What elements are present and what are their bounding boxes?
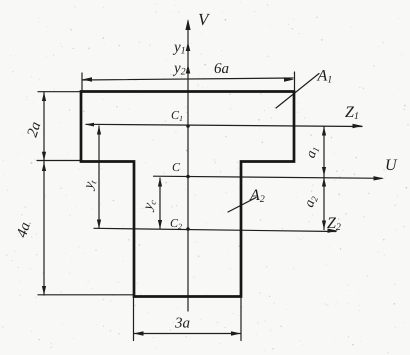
arrow 6a right	[284, 77, 294, 81]
T-shape outline	[81, 92, 294, 297]
extension line below stem right corner	[240, 298, 242, 341]
arrow yc up	[158, 178, 162, 187]
axis Z2 line through C2	[94, 228, 336, 231]
arrow at left end of C1 line	[85, 123, 94, 127]
dimension line 2a 4a vertical left	[43, 92, 45, 295]
arrow V axis top	[185, 19, 190, 30]
svg-text:U: U	[385, 157, 398, 174]
arrow a2 down	[322, 221, 326, 230]
node C1 dot	[186, 124, 190, 128]
svg-text:3a: 3a	[174, 316, 190, 332]
arrow left dim bottom down	[42, 286, 46, 295]
node C dot	[186, 175, 190, 179]
axis Z1 line through C1	[86, 124, 362, 126]
svg-text:C: C	[172, 160, 181, 174]
arrow left dim mid down	[42, 152, 46, 161]
extension line above right flange corner	[294, 72, 296, 90]
svg-text:6a: 6a	[214, 61, 229, 77]
extension line left at flange top	[38, 91, 80, 93]
arrow 6a left	[82, 77, 92, 81]
dimension line yc vertical	[159, 178, 161, 229]
axis U line through C	[154, 176, 383, 178]
extension line left at stem bottom	[38, 294, 133, 296]
arrow yt up	[97, 126, 101, 135]
arrow y1 on axis	[186, 42, 191, 51]
arrow 3a left	[134, 331, 144, 335]
dimension line a1 a2 vertical	[323, 127, 325, 230]
leader line A2	[228, 198, 256, 213]
arrow 3a right	[231, 331, 241, 335]
dimension line 6a	[83, 78, 293, 80]
arrow Z2 tip	[328, 229, 339, 233]
dimension line 3a	[134, 333, 241, 335]
arrow U tip	[374, 176, 385, 180]
extension line below stem left corner	[133, 298, 135, 341]
axis V vertical centerline	[187, 21, 189, 311]
node C2 dot	[186, 227, 190, 231]
arrow a2 up	[322, 178, 326, 187]
arrow left dim top up	[42, 92, 46, 101]
extension line above left flange corner	[81, 73, 83, 90]
arrow a1 down	[322, 167, 326, 176]
arrow yt down	[97, 220, 101, 229]
arrow y2 on axis	[186, 65, 191, 74]
extension line left at flange bottom	[37, 160, 81, 162]
dimension line yt vertical	[98, 126, 100, 228]
leader line A1	[276, 74, 319, 109]
arrow Z1 tip	[353, 124, 364, 128]
arrow left dim mid up	[42, 162, 46, 171]
arrow a1 up	[322, 127, 326, 136]
arrow yc down	[158, 220, 162, 229]
